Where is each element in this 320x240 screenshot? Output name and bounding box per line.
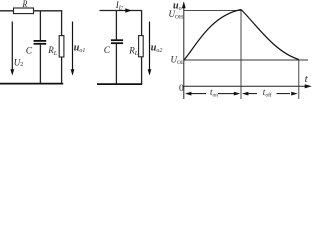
svg-text:uo2: uo2 (151, 42, 163, 54)
svg-text:toff: toff (263, 87, 272, 98)
svg-text:RL: RL (128, 45, 139, 57)
svg-text:t: t (305, 73, 309, 85)
svg-text:R: R (22, 0, 28, 9)
svg-text:0: 0 (179, 84, 184, 94)
svg-text:UOL: UOL (171, 54, 185, 66)
svg-text:uo1: uo1 (74, 42, 86, 54)
svg-text:ton: ton (210, 87, 218, 98)
svg-text:U2: U2 (14, 57, 23, 68)
svg-text:RL: RL (47, 45, 58, 57)
svg-text:C: C (104, 46, 111, 56)
svg-text:IL: IL (115, 0, 123, 12)
svg-text:C: C (26, 46, 33, 56)
